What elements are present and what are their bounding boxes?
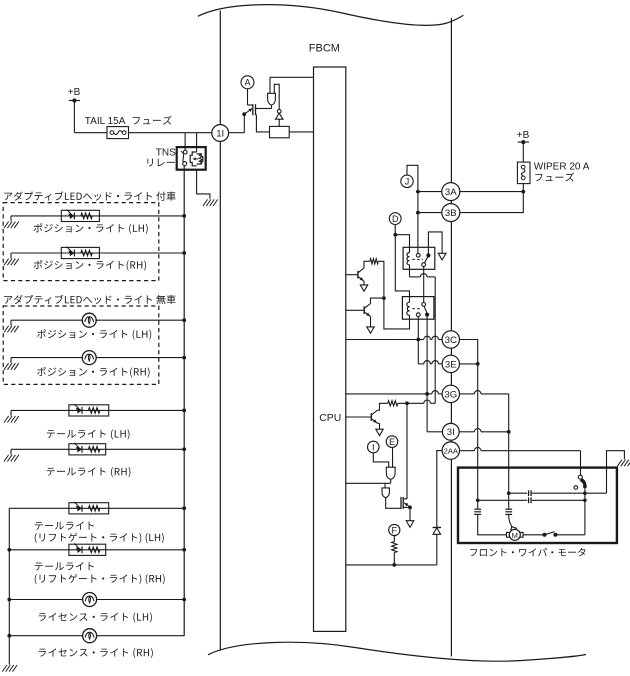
svg-text:3E: 3E [445,359,457,370]
wire CPU to Q4 base [346,416,372,418]
label position light RH [34,260,146,270]
output triangle Q3 emitter [367,327,374,333]
wire to lower dome [384,483,386,488]
wire A to Q1 gate [247,89,249,105]
node D branch to relay1 coil [393,233,397,237]
wire lamp feed bus (TNS switch output) [183,166,185,636]
park switch contact NC (open) [574,486,578,490]
wire lower lamp group bus [8,508,10,664]
transistor Q5 (MOSFET) [400,497,402,509]
torn-page band right edge (wire) [450,18,452,657]
transistor Q4 (NPN) [370,413,372,421]
torn edge bottom wave [208,642,586,661]
label tail light (liftgate) LH line1 [35,521,94,529]
wire I to dome [373,453,388,467]
relay K2 common node [425,313,429,317]
connector circle 2AA [442,442,459,459]
wire branch to TNS relay switch [184,133,186,151]
label wiper fuse katakana [535,173,574,182]
resistor R3 [388,401,398,406]
node R3/MOSFET junction [405,401,409,405]
connector circle J [401,175,413,187]
node suppressor A left [507,491,511,495]
component current source (top) [268,93,276,105]
label tail fuse katakana [133,116,172,125]
wire FBCM bottom pin to 2AA [346,564,437,566]
wire Q1 drain to component [263,108,272,110]
label tail light (liftgate) RH line1 [35,562,94,570]
connector circle A [241,76,254,89]
ground lamp group [2,665,7,672]
node F junction [392,563,396,567]
label license light RH [39,648,153,658]
label adaptive LED headlight equipped [4,191,175,200]
relay K2 coil [407,302,410,315]
capacitor C3 [528,490,530,496]
front wiper motor box [458,468,617,543]
wire to 3B [418,212,442,214]
relay K1 coil-arm dashed link [412,258,423,260]
relay K1 contact common node [426,253,430,257]
relay K1 contact fixed [416,253,420,257]
svg-text:TAIL 15A: TAIL 15A [85,116,126,127]
diode D1 [433,528,441,534]
label tail light RH [47,467,131,477]
svg-text:A: A [244,78,250,88]
connector circle 3G [442,385,459,402]
wire K1 contact to K2 contact [423,267,425,303]
svg-text:TNS: TNS [156,148,176,159]
wire R3 node down to Q5 drain [406,403,408,499]
label position light RH (bulb) [37,367,149,377]
zener detector D2 (circle+triangle) [277,109,281,113]
dashed box adaptive LED equipped [3,203,159,281]
resistor block R1 [270,126,290,137]
wire TNS coil to ground [197,170,210,199]
label position light LH (bulb) [37,329,151,339]
wire D node to relay1 coil top [395,235,409,253]
bulb position light RH + wire + ground + node [11,357,82,359]
bulb license light RH + wire + nodes [9,635,82,637]
svg-text:I: I [372,442,375,452]
wire 2AA right to park switch [460,450,475,452]
output triangle Q4 emitter [376,429,383,435]
svg-text:F: F [392,525,398,535]
svg-text:+B: +B [517,130,530,141]
node Q5 source [408,506,412,510]
label tail light (liftgate) LH line2 [35,533,164,543]
ground wiper circuit [617,460,622,467]
wire up to diode [436,534,438,565]
connector circle 3E [442,355,459,372]
label tail light (liftgate) RH line2 [35,574,165,584]
component current source (gate) [382,488,389,498]
resistor R2 [370,259,378,264]
bulb position light LH + wire + ground + node [11,319,82,321]
wire K2 coil low side to Q2/Q3 node [384,298,410,329]
svg-text:1I: 1I [216,128,224,139]
wire to 3I [427,431,442,433]
node 3C junction [416,338,420,342]
node 3G junction [425,392,429,396]
relay TNS box [177,147,206,170]
connector circle 3B [442,204,460,222]
wire Q2 collector to resistor R2 [364,261,370,268]
relay K2 movable arm [424,306,427,313]
wire +B to WIPER fuse [522,142,524,162]
wire component to detector [274,84,279,109]
wire to 3E [418,363,424,365]
torn-page band left edge (wire) [219,11,221,651]
node 3B junction [416,211,420,215]
wire dome to FBCM pin wire [390,479,392,483]
wire diode to 2AA [437,451,442,528]
connector circle I [368,441,380,453]
svg-text:E: E [389,437,395,447]
wire motor to connector blade [523,534,545,536]
node Q2/Q3 collector junction [382,296,386,300]
FBCM module box U1 [314,67,346,631]
wire E to dome [392,447,394,467]
motor M front wiper [507,532,510,537]
capacitor C1 (feedthrough) [474,508,481,510]
node Q1 body junction [242,112,246,116]
label TNS relay (katakana) [147,159,174,167]
output triangle (to other circuit) near K1 [438,253,446,260]
wire lower dome to Q5 gate [386,498,401,509]
wire D node down to relay2 coil top [395,235,409,303]
wire Q3 collector to node [371,298,384,303]
wire K1 common to output triangle [428,232,442,256]
wire FBCM to Q3 base [346,309,364,311]
wire suppressor row A [509,492,528,494]
wire C1 to motor low brush [478,515,507,535]
wire blade to park switch line [555,534,585,536]
connector circle 3I [442,423,459,440]
connector circle 3A [442,183,460,201]
relay K1 movable arm [424,257,427,263]
dashed box adaptive LED not equipped [3,306,159,384]
wire Q1 source-drain to R1 [256,115,269,132]
resistor R4 [392,542,397,553]
transistor Q3 (NPN) [363,306,365,314]
capacitor C4 [528,497,530,503]
wire V1 down to capacitor C1 [477,500,479,509]
ground TNS relay [203,199,208,206]
wire 1I to transistor Q1 source [229,132,245,134]
transistor Q2 (NPN) [357,271,359,279]
node suppressor B left [476,499,480,503]
svg-text:J: J [405,177,410,187]
svg-text:2AA: 2AA [444,446,459,455]
park switch common contact [578,475,582,479]
wire V2 down to capacitor C2 [508,493,510,509]
wire 3G right [460,393,475,395]
output triangle Q2 emitter [360,285,367,291]
svg-text:FBCM: FBCM [309,43,340,55]
wire R1 to FBCM pin [289,131,313,133]
label front wiper motor [470,548,585,556]
node park switch / suppressor A [583,491,587,495]
LED position light LH + wire + ground + node [11,215,61,217]
wire C2 to motor top brush [509,515,513,528]
bulb license light LH + wire + nodes [9,599,82,601]
transistor Q1 (p-ch MOSFET) [252,104,254,115]
connector circle 1I [212,125,229,142]
wire Q4 emitter to triangle [378,422,380,424]
wire J hook to relay line [407,165,418,253]
wire FBCM to Q2 base [346,274,358,276]
LED tail light LH + wire + ground + node [11,409,69,411]
output triangle Q5 [406,521,414,528]
torn edge top wave [198,5,464,26]
wire branch to TNS relay coil [196,133,198,152]
LED tail liftgate LH + wire + node [9,507,69,509]
wire D down [394,225,396,235]
relay K2 box [402,297,434,320]
wire K2 common down to 3G/3I [426,317,428,432]
LED tail light RH + wire + ground + node [11,448,69,450]
relay TNS switch contacts [183,150,187,154]
connector circle F [389,524,400,535]
svg-text:3G: 3G [444,389,457,400]
node J/3A junction [416,190,420,194]
wire park switch down [584,486,586,534]
wire F to resistor R4 [393,536,395,542]
wire Q5 source to triangle [409,507,411,520]
wire ground path into box [607,451,625,494]
node 3I junction on 3G line [507,430,511,434]
wire K1 coil low side [409,265,411,277]
wire component to FBCM pin [269,77,271,93]
svg-text:3I: 3I [447,427,455,438]
LED position light RH + wire + ground + node [11,252,61,254]
wire 3C/3E down into motor box [477,364,479,500]
wire Q4 collector to R3 [378,403,388,410]
label tail light LH [47,429,130,439]
wire to 3A [418,191,442,193]
wire 3E right [460,363,478,365]
relay K2 contact fixed top [422,303,426,307]
relay TNS coil [190,152,196,166]
svg-text:3B: 3B [445,208,457,219]
wire R4 to bottom wire [393,553,395,565]
fuse WIPER 20A [517,162,530,184]
wire Q3 emitter to triangle [370,317,372,327]
svg-text:M: M [512,531,518,540]
svg-text:3A: 3A [445,187,457,198]
svg-text:3C: 3C [445,335,457,346]
wire K2 contact2 down to 3C/3E [417,317,419,364]
wire Q2 emitter to triangle [363,281,365,285]
svg-text:CPU: CPU [319,413,341,424]
fuse TAIL 15A [107,127,129,139]
wire fuse to connector 1I [129,132,212,134]
LED tail liftgate RH + wire + nodes [9,549,69,551]
wire R3 to K1 coil line [398,402,424,404]
svg-text:D: D [392,214,399,224]
node 3E right junction [476,362,480,366]
capacitor C2 (feedthrough) [505,508,512,510]
park switch contact NO node [583,485,587,489]
label adaptive LED headlight not equipped [4,295,175,304]
wire R2 to node [378,261,384,298]
wire 3I right [459,431,474,433]
wire suppressor row B [478,499,528,501]
wire 3C right [460,340,478,364]
wire +B to fuse [73,101,75,133]
relay K1 coil [407,253,410,265]
node park switch / suppressor B [583,499,587,503]
svg-text:+B: +B [68,87,81,98]
component current source (I/E) [386,467,395,479]
connector circle D [389,213,401,225]
park switch arm/cam [581,479,585,485]
relay K2 contact fixed 2 [416,313,420,317]
svg-text:WIPER 20 A: WIPER 20 A [534,162,590,173]
label position light LH [34,223,148,233]
connector blade nodes [543,533,547,537]
relay K2 coil-arm dashed link [412,308,421,310]
connector circle E [386,436,398,448]
relay K1 box [403,247,435,269]
connector circle 3C [442,331,459,348]
label license light LH [39,612,152,622]
wire FBCM pin to 3G [346,393,427,395]
wire FBCM pin to 3C [346,339,419,341]
wire fuse to 3A/3B [460,184,523,192]
